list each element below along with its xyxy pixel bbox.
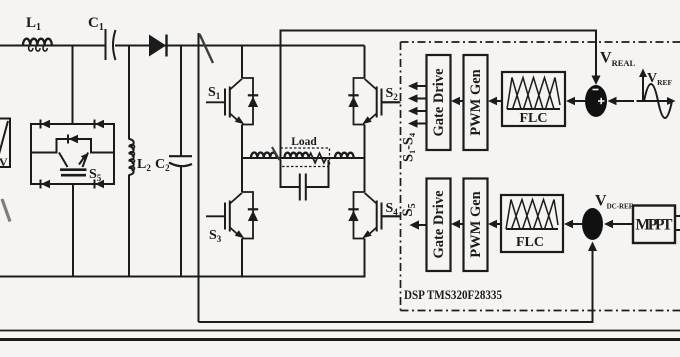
FLC box 1 [502,72,565,126]
load inductor left [251,153,277,158]
capacitor C1 [106,29,116,60]
wire C2 bottom stub [180,165,182,277]
arrow PWM1 to GateDrive1 [458,100,464,102]
arrow into summer 1 [592,76,601,86]
wire C2 top stub [180,46,182,157]
wire S5 top stub [72,46,74,125]
node DC sense line [198,33,200,322]
svg-text:DSP TMS320F28335: DSP TMS320F28335 [404,288,502,302]
summer 1 [585,85,607,117]
transistor S2 [348,78,400,125]
arrow summer1 to FLC1 [573,100,586,102]
wire bridge right leg top [364,46,366,79]
MPPT box [633,206,675,244]
svg-text:PWM Gen: PWM Gen [468,191,484,257]
summer 2 [582,208,603,240]
svg-text:FLC: FLC [520,111,548,126]
capacitor C2 [169,156,192,166]
wire top rail right [115,45,365,47]
wire bridge left leg top [241,46,243,79]
load dashed box [281,148,330,167]
wire bottom rail [0,276,366,278]
svg-text:V: V [0,155,8,169]
arrow Vref to summer1 [615,100,634,102]
load inductor right [335,153,354,158]
wire S5 bottom stub [72,184,74,277]
svg-text:PWM Gen: PWM Gen [468,69,484,135]
diode bottom-left [41,180,51,189]
Vref sine source [637,69,676,119]
IGBT S5 [59,153,88,176]
svg-text:FLC: FLC [516,235,544,250]
gate drive box 2 [427,179,451,272]
arrow summer2 to FLC2 [571,223,582,225]
DC feedback wire [199,251,593,322]
arrow S5 gate signal [418,224,427,226]
V_REAL sense wire [281,31,597,159]
irradiance arrow (gray) [2,199,10,222]
inductor L1 [23,39,52,51]
transistor S4 [348,192,400,239]
arrow FLC2 to PWM2 [495,223,501,225]
arrow MPPT to summer2 [611,223,633,225]
diode D1 [149,35,167,57]
wire left leg bottom [241,239,243,277]
gate signal arrows S1-S4 [408,82,427,128]
diode bottom-right [95,180,105,189]
wire right leg bottom [364,239,366,277]
switch S5 block [31,120,114,189]
wire L2 top stub [128,46,130,140]
pwm gen box 1 [464,55,488,150]
MPPT input stubs [675,215,680,217]
inner branch with diode [31,135,114,153]
arrow FLC1 to PWM1 [495,100,502,102]
svg-text:Gate Drive: Gate Drive [431,190,447,259]
probe slash at load tap [272,147,280,160]
svg-text:S1-S4: S1-S4 [401,133,418,162]
diode top-right [95,120,105,129]
probe slash [200,34,214,63]
gate drive box 1 [427,55,451,150]
load wire [242,157,365,159]
wire left leg mid [241,125,243,193]
load inductor inner [285,153,309,158]
wire top rail left [0,45,105,47]
transistor S1 [206,78,258,125]
wire right leg mid [364,125,366,193]
inductor L2 [129,139,135,175]
filter capacitor branch [281,160,329,201]
transistor S3 [206,192,258,239]
diode top-left [41,120,51,129]
pwm gen box 2 [464,179,488,272]
svg-text:MPPT: MPPT [636,217,674,234]
load resistor [309,153,327,163]
DSP dash-dot box [401,42,680,311]
arrow into summer 2 [588,242,597,252]
page rule lower [0,338,680,341]
svg-text:Gate Drive: Gate Drive [431,68,447,137]
wire L2 bottom stub [128,175,130,277]
FLC box 2 [501,195,563,252]
svg-text:Load: Load [291,136,317,148]
PV panel [0,119,10,168]
page rule upper [0,330,680,332]
arrow PWM2 to GateDrive2 [458,223,464,225]
